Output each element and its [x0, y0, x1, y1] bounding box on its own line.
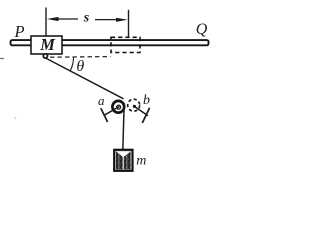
svg-text:M: M	[39, 35, 56, 54]
svg-text:θ: θ	[76, 58, 84, 75]
dashed horizontal reference line	[50, 56, 111, 59]
block M	[31, 36, 62, 54]
hook on block M	[43, 54, 47, 58]
svg-text:b: b	[143, 93, 150, 108]
support tick a	[101, 108, 108, 122]
pulley a	[112, 101, 124, 113]
dimension arrow right	[95, 18, 128, 22]
rod PQ	[11, 40, 209, 45]
svg-text:m: m	[136, 154, 146, 169]
pulley b (dashed)	[128, 99, 140, 111]
svg-text:Q: Q	[196, 21, 208, 38]
string M to pulley a	[46, 58, 124, 99]
angle arc	[70, 57, 73, 71]
support strut a	[104, 106, 119, 115]
svg-text:s: s	[83, 11, 90, 26]
support strut b	[134, 106, 148, 115]
dimension arrow left	[47, 17, 78, 21]
extension line left	[45, 8, 47, 37]
svg-text:a: a	[98, 93, 105, 108]
mass m block	[114, 150, 132, 171]
vertical string	[123, 103, 124, 151]
support tick b	[142, 108, 149, 123]
stray scan dot	[15, 118, 17, 120]
hub b	[133, 105, 136, 108]
hub a	[117, 105, 121, 109]
extension line right	[128, 10, 130, 37]
dashed block (new position)	[111, 37, 140, 52]
svg-text:P: P	[13, 22, 24, 41]
stray scan mark left edge	[0, 58, 4, 60]
